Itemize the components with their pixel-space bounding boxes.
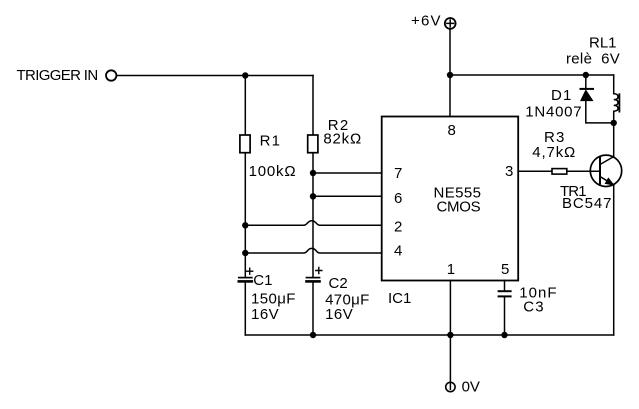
transistor TR1 collector [600,123,614,165]
wire R3 to base [567,170,599,172]
wire pin1 down [449,281,451,336]
terminal TRIGGER IN [106,70,116,80]
svg-text:IC1: IC1 [388,290,411,307]
svg-text:0V: 0V [462,379,480,396]
wire pin2 with hop over R2 [245,221,381,226]
wire pin7 [313,172,382,174]
capacitor C1 bottom plate [239,280,252,283]
svg-text:7: 7 [394,165,402,182]
capacitor C2 top plate [307,277,320,279]
svg-text:1N4007: 1N4007 [525,104,582,121]
svg-text:6: 6 [394,190,402,207]
resistor R2 [308,135,318,153]
wire pin8 / +6V vertical [449,29,451,117]
svg-text:3: 3 [505,163,513,180]
svg-text:16V: 16V [251,306,279,323]
svg-text:RL1: RL1 [589,35,617,52]
svg-text:1: 1 [447,261,455,278]
transistor TR1 emitter [600,177,614,185]
svg-text:R1: R1 [260,133,282,150]
junction C2/rail [310,332,316,338]
terminal +6V [445,18,456,29]
transistor TR1 circle [590,155,621,186]
wire C3 bottom lead [504,297,506,335]
terminal +6V plus sign [447,20,454,27]
wire trigger input horizontal [117,75,313,77]
svg-text:+6V: +6V [411,13,442,30]
svg-text:82kΩ: 82kΩ [323,131,362,148]
junction D1 top [583,72,589,78]
junction R2/pin7 wire [310,170,316,176]
transistor TR1 emitter arrow [606,178,614,185]
wire pin3 [518,170,552,172]
junction C3/rail [501,332,507,338]
diode D1 cathode bar [581,88,594,90]
junction R2/pin6 wire [310,193,316,199]
junction trigger/R1 [242,72,248,78]
diode D1 [581,90,593,100]
wire C1 bottom lead [244,283,246,335]
IC IC1 NE555 box [382,117,519,281]
svg-text:relè 6V: relè 6V [566,51,620,68]
resistor R1 [240,135,250,153]
svg-text:D1: D1 [551,87,573,104]
svg-text:C3: C3 [523,299,545,316]
wire emitter down [613,186,615,336]
wire ground rail [245,334,613,336]
wire R1 bottom lead to C1 [244,153,246,277]
wire pin4 with hop over R2 [245,248,381,253]
wire C2 bottom lead [312,283,314,335]
wire R1 top lead [244,76,246,135]
wire trigger down to R2 [312,76,314,135]
wire D1 top lead [585,75,587,89]
junction R1/pin2 wire [242,222,248,228]
wire 0V lead [449,335,451,389]
junction pin1/rail [447,332,453,338]
capacitor C2 bottom plate [307,280,320,283]
wire pin6 [313,195,382,197]
svg-text:C2: C2 [329,275,348,292]
svg-text:4,7kΩ: 4,7kΩ [532,144,576,161]
wire D1 bottom lead [586,101,614,123]
junction +6V rail [447,72,453,78]
svg-text:2: 2 [394,219,402,236]
transistor TR1 base bar [599,157,601,183]
resistor R3 [552,169,567,175]
svg-text:C1: C1 [253,272,272,289]
svg-text:BC547: BC547 [562,195,612,212]
relay RL1 coil [614,75,618,123]
svg-text:100kΩ: 100kΩ [249,163,297,180]
terminal 0V [446,382,455,391]
svg-text:TRIGGER IN: TRIGGER IN [17,67,98,84]
capacitor C3 top plate [499,290,511,292]
svg-text:150μF: 150μF [251,291,296,308]
junction coil bottom [611,120,617,126]
capacitor C1 top plate [239,277,252,279]
capacitor C1 plus sign [247,268,253,274]
wire R2 bottom lead to C2 [312,153,314,277]
svg-text:8: 8 [448,122,456,139]
svg-text:5: 5 [501,261,509,278]
wire +6V rail to relay [450,74,614,76]
svg-text:4: 4 [394,243,402,260]
capacitor C2 plus sign [316,268,322,274]
svg-text:16V: 16V [325,306,353,323]
wire pin5 to C3 [504,281,506,291]
capacitor C3 bottom plate [499,295,511,297]
svg-text:CMOS: CMOS [437,199,481,216]
junction R1/pin4 wire [242,250,248,256]
relay RL1 core bar [618,94,620,111]
